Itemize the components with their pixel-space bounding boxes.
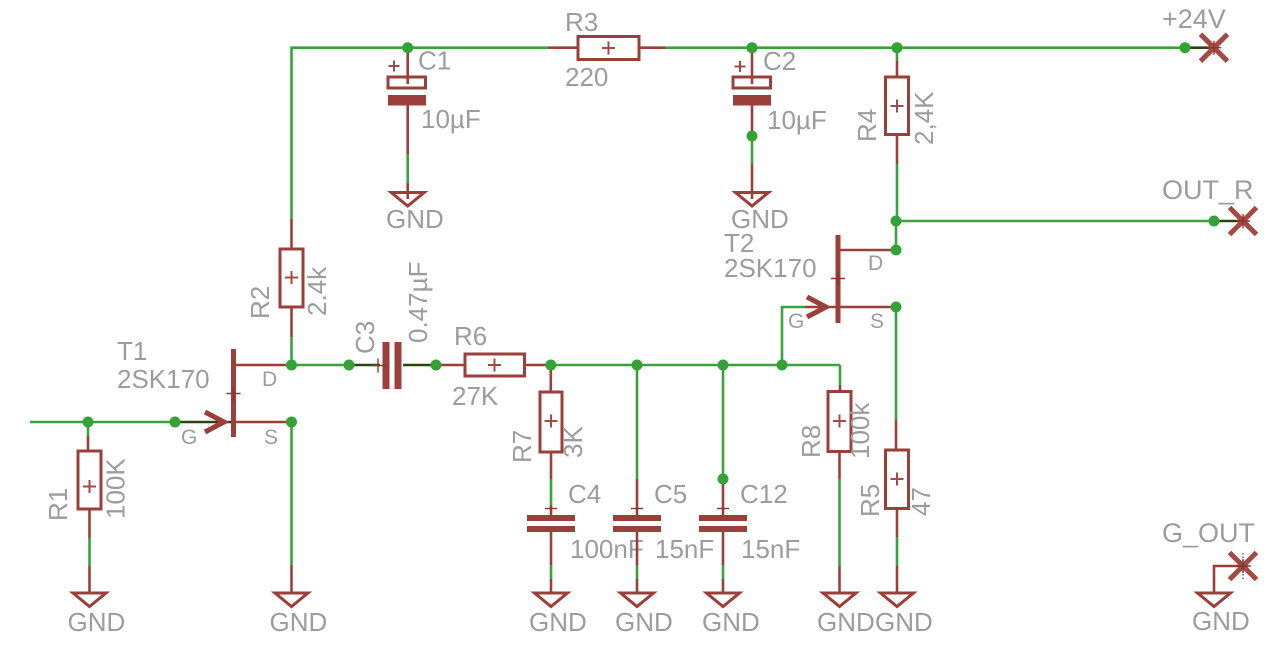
svg-text:2,4K: 2,4K xyxy=(909,91,939,145)
gate arrow xyxy=(205,412,224,432)
svg-text:GND: GND xyxy=(875,607,933,637)
svg-text:R7: R7 xyxy=(507,430,537,463)
origin cross xyxy=(831,272,845,286)
input gate wire xyxy=(30,421,175,424)
ground under R5 xyxy=(875,593,933,637)
dotted crosshair xyxy=(1236,553,1251,579)
channel bar xyxy=(836,235,841,323)
svg-text:T1: T1 xyxy=(117,336,147,366)
svg-text:10µF: 10µF xyxy=(421,104,481,134)
svg-text:OUT_R: OUT_R xyxy=(1162,175,1254,205)
ground under R1 xyxy=(68,593,126,637)
net flag +24V xyxy=(1162,4,1228,61)
junction xyxy=(286,417,297,428)
channel bar xyxy=(231,349,236,437)
resistor R2 xyxy=(245,219,332,365)
junction xyxy=(286,360,297,371)
resistor R5 xyxy=(855,420,936,592)
svg-text:C1: C1 xyxy=(418,46,451,76)
capacitor C1 xyxy=(388,46,481,200)
svg-text:100nF: 100nF xyxy=(570,534,644,564)
junction xyxy=(777,360,788,371)
svg-text:GND: GND xyxy=(702,607,760,637)
wire xyxy=(1214,566,1243,592)
svg-text:10µF: 10µF xyxy=(767,105,827,135)
drain pin xyxy=(841,249,897,252)
svg-text:S: S xyxy=(870,310,884,333)
gate pin xyxy=(805,306,836,309)
svg-text:27K: 27K xyxy=(452,381,499,411)
svg-text:GND: GND xyxy=(270,607,328,637)
svg-text:GND: GND xyxy=(615,607,673,637)
svg-text:GND: GND xyxy=(529,607,587,637)
wire xyxy=(666,46,1186,49)
svg-text:R1: R1 xyxy=(43,488,73,521)
junction xyxy=(632,360,643,371)
junction xyxy=(891,245,902,256)
svg-text:2SK170: 2SK170 xyxy=(724,253,817,283)
junction xyxy=(1180,42,1191,53)
junction on C12 wire xyxy=(718,474,729,485)
svg-text:220: 220 xyxy=(565,62,608,92)
ground under C12 xyxy=(702,593,760,637)
svg-text:C5: C5 xyxy=(654,479,687,509)
svg-text:GND: GND xyxy=(386,204,444,234)
origin cross xyxy=(227,387,241,401)
T2 source wire xyxy=(895,307,898,420)
svg-text:D: D xyxy=(262,368,277,391)
svg-text:GND: GND xyxy=(68,607,126,637)
junction xyxy=(891,216,902,227)
mid rail wire xyxy=(292,365,841,385)
svg-text:GND: GND xyxy=(817,607,875,637)
junction xyxy=(402,42,413,53)
svg-text:G: G xyxy=(181,426,197,449)
junction xyxy=(545,360,556,371)
svg-text:+24V: +24V xyxy=(1162,4,1226,34)
T1 source wire xyxy=(290,422,293,592)
svg-text:GND: GND xyxy=(1192,606,1250,636)
capacitor C5 xyxy=(613,365,714,592)
svg-text:100k: 100k xyxy=(845,402,875,459)
junction xyxy=(891,302,902,313)
ground under C5 xyxy=(615,593,673,637)
gate pin overlap xyxy=(175,421,231,424)
junction xyxy=(431,360,442,371)
ground under C4 xyxy=(529,593,587,637)
svg-text:R2: R2 xyxy=(245,286,275,319)
capacitor C12 xyxy=(699,365,800,592)
svg-text:R6: R6 xyxy=(454,321,487,351)
ground under C2 xyxy=(731,193,789,235)
junction xyxy=(747,42,758,53)
capacitor C4 xyxy=(527,479,644,592)
source pin xyxy=(236,421,292,424)
svg-text:G: G xyxy=(788,310,804,333)
svg-text:C4: C4 xyxy=(568,479,601,509)
junction xyxy=(83,417,94,428)
wire xyxy=(292,48,549,219)
svg-text:R5: R5 xyxy=(855,484,885,517)
drain pin xyxy=(236,364,292,367)
svg-text:C2: C2 xyxy=(763,46,796,76)
junction below C2 xyxy=(747,131,758,142)
resistor R3 xyxy=(548,7,666,92)
resistor R4 xyxy=(852,48,939,221)
ground under G_OUT xyxy=(1192,593,1250,636)
junction xyxy=(170,417,181,428)
svg-text:15nF: 15nF xyxy=(655,534,714,564)
svg-text:G_OUT: G_OUT xyxy=(1162,518,1255,548)
net flag OUT_R xyxy=(1162,175,1257,235)
T2 gate wire xyxy=(782,307,805,365)
svg-text:0.47µF: 0.47µF xyxy=(403,262,433,343)
svg-text:C12: C12 xyxy=(740,479,788,509)
ground under R8 xyxy=(817,593,875,637)
resistor R7 xyxy=(507,365,588,505)
junction xyxy=(344,360,355,371)
svg-text:15nF: 15nF xyxy=(741,534,800,564)
svg-text:47: 47 xyxy=(906,487,936,516)
svg-text:100K: 100K xyxy=(101,458,131,519)
svg-text:R8: R8 xyxy=(796,425,826,458)
svg-text:3K: 3K xyxy=(558,426,588,458)
capacitor C2 xyxy=(733,46,827,199)
junction xyxy=(718,360,729,371)
net OUT_R wire xyxy=(896,221,1243,250)
transistor T2 2SK170 xyxy=(724,228,896,333)
wire overlap to +24V pin xyxy=(1185,46,1214,49)
ground under C1 xyxy=(386,193,444,235)
junction xyxy=(1209,216,1220,227)
net flag G_OUT xyxy=(1162,518,1257,592)
svg-text:C3: C3 xyxy=(350,321,380,354)
ground under T1 source xyxy=(270,593,328,637)
transistor T1 2SK170 xyxy=(117,336,292,449)
source pin xyxy=(841,306,897,309)
svg-text:S: S xyxy=(264,426,278,449)
junction xyxy=(892,42,903,53)
capacitor C3 xyxy=(350,262,433,389)
resistor R1 xyxy=(43,422,131,592)
gate arrow xyxy=(807,297,826,317)
svg-text:D: D xyxy=(868,252,883,275)
net +24V top rail xyxy=(292,48,1215,219)
resistor R6 xyxy=(436,321,551,411)
svg-text:2.4k: 2.4k xyxy=(302,266,332,316)
svg-text:R3: R3 xyxy=(565,7,598,37)
svg-text:2SK170: 2SK170 xyxy=(117,364,210,394)
resistor R8 xyxy=(796,385,875,592)
svg-text:R4: R4 xyxy=(852,109,882,142)
